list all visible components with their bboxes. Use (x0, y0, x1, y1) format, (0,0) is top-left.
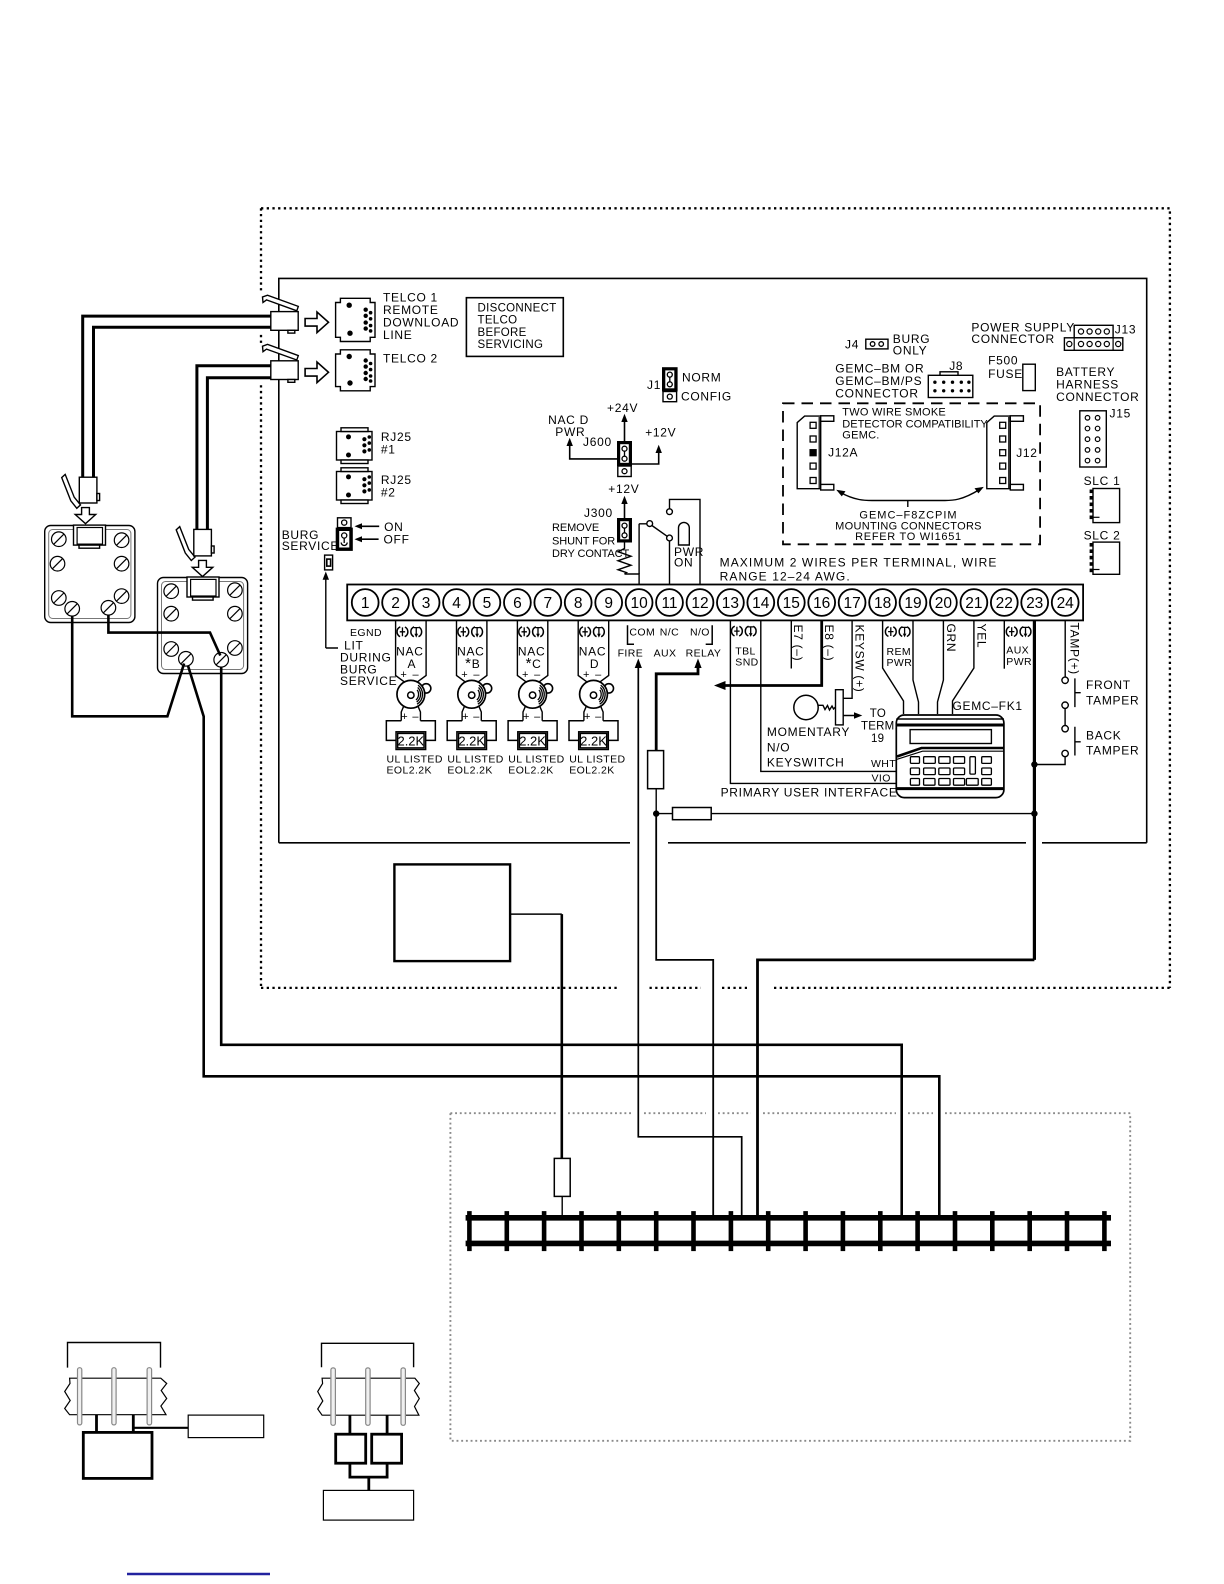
RJ25 #2 jack (337, 468, 373, 504)
svg-text:J300: J300 (584, 506, 613, 520)
svg-text:–: – (473, 711, 480, 723)
power switch contact to terminal 10 (639, 521, 672, 585)
svg-text:REFER TO WI1651: REFER TO WI1651 (855, 531, 962, 543)
wire terminal 24 TAMP (1064, 620, 1066, 677)
svg-text:SND: SND (735, 657, 758, 669)
TBL SND polarity terminals (732, 626, 757, 637)
svg-text:+: + (522, 669, 529, 681)
label POWER SUPPLY CONNECTOR (971, 321, 1075, 347)
svg-text:–: – (412, 669, 419, 681)
wire telco2 cable pair (197, 366, 271, 530)
svg-text:RELAY: RELAY (686, 648, 722, 660)
svg-text:–: – (534, 711, 541, 723)
svg-text:19: 19 (904, 595, 921, 612)
right cable symbol bracket (322, 1343, 414, 1367)
terminal 7 (534, 589, 561, 616)
terminal 4 (443, 589, 470, 616)
label FIRE AUX RELAY (618, 648, 722, 660)
wire J300 dry contact to terminal 10 (625, 574, 640, 585)
label UL LISTED EOL2.2K (A) (387, 754, 443, 777)
svg-text:REMOVE: REMOVE (552, 522, 599, 534)
NAC C bell (519, 680, 553, 708)
fuse F500 (1023, 364, 1036, 390)
terminal 12 (687, 589, 714, 616)
RELAY arrow wire from terminal 12 (656, 659, 701, 752)
svg-text:RANGE 12–24 AWG.: RANGE 12–24 AWG. (720, 570, 851, 584)
svg-text:PRIMARY USER INTERFACE: PRIMARY USER INTERFACE (721, 786, 898, 800)
resistor R3 (vertical) (554, 1158, 570, 1196)
svg-text:+: + (523, 711, 530, 723)
FIRE arrow wire from terminal 10 (635, 659, 742, 1219)
svg-text:N/O: N/O (767, 740, 790, 754)
down arrow to block 1 (75, 508, 96, 524)
RJ31X block 1 (45, 525, 135, 622)
svg-text:GRN: GRN (944, 624, 958, 653)
right structure connector stubs (350, 1415, 387, 1434)
RJ25 #1 jack (337, 428, 373, 464)
right cable conductors (331, 1368, 406, 1425)
connector SLC1 (1090, 489, 1120, 523)
arrow NAC D PWR from J600 (548, 413, 617, 459)
wire terminal 21 YEL to keypad (953, 620, 974, 714)
wire resistor R1 to junction (655, 789, 657, 814)
wire terminal 19 to keypad (913, 620, 919, 714)
svg-text:AUX: AUX (1006, 645, 1029, 657)
wire terminal 20 GRN to keypad (938, 620, 944, 714)
terminal 24 (1052, 589, 1079, 616)
svg-text:19: 19 (871, 733, 884, 745)
svg-text:+: + (462, 711, 469, 723)
svg-text:4: 4 (452, 595, 461, 612)
label BACK TAMPER (1086, 729, 1139, 758)
svg-text:J12A: J12A (828, 446, 858, 460)
svg-text:11: 11 (661, 595, 677, 612)
svg-text:VIO: VIO (872, 773, 891, 785)
wire terminal 23 thick drop (1033, 620, 1036, 960)
svg-text:+: + (400, 669, 407, 681)
wire terminal 16 E8 thick with left arrow (714, 620, 822, 690)
svg-text:7: 7 (543, 595, 552, 612)
momentary keyswitch key symbol (794, 690, 843, 725)
svg-text:CONNECTOR: CONNECTOR (835, 387, 918, 401)
left cable symbol band (65, 1378, 167, 1415)
svg-text:TAMP(+): TAMP(+) (1068, 623, 1082, 675)
terminal 20 (930, 589, 957, 616)
terminal 16 (808, 589, 835, 616)
arrow +24V from J600 (607, 401, 638, 441)
TELCO 2 jack J-T2 (336, 350, 375, 391)
wire resistor R3 to lower terminal block (561, 1196, 563, 1218)
svg-text:SLC 2: SLC 2 (1084, 529, 1121, 543)
down arrow to block 2 (192, 560, 213, 576)
label RJ25 #2 (381, 473, 412, 500)
svg-text:TERM.: TERM. (861, 721, 898, 733)
two wire smoke compatibility dashed box (783, 403, 1040, 544)
left cable conductors (78, 1368, 152, 1425)
svg-text:ON: ON (674, 556, 693, 570)
svg-text:EOL2.2K: EOL2.2K (569, 765, 614, 777)
terminal 11 (656, 589, 683, 616)
svg-text:J13: J13 (1115, 323, 1136, 337)
label F500 FUSE (988, 354, 1023, 381)
svg-text:GEMC.: GEMC. (842, 430, 879, 442)
NAC B bell neck (462, 706, 481, 721)
RJ plug P3 into RJ31X block 1 (62, 474, 100, 508)
svg-text:23: 23 (1026, 595, 1043, 612)
svg-text:3: 3 (422, 595, 431, 612)
svg-text:DISCONNECT: DISCONNECT (478, 303, 557, 315)
label UL LISTED EOL2.2K (C) (508, 754, 564, 777)
label BURG SERVICE (282, 528, 339, 553)
connector J12A (797, 416, 834, 490)
label NAC A (396, 645, 423, 682)
svg-text:YEL: YEL (975, 624, 989, 649)
AUX PWR polarity terminals (1006, 626, 1031, 637)
svg-text:E7 (–): E7 (–) (791, 625, 805, 662)
svg-text:E8 (–): E8 (–) (822, 625, 836, 662)
svg-text:PWR: PWR (887, 657, 913, 669)
svg-text:PWR: PWR (1006, 656, 1032, 668)
wire block2 to premises phones (lower horizontal) (188, 666, 939, 1218)
svg-text:DRY CONTACT: DRY CONTACT (552, 548, 630, 560)
arrow keyswitch TO TERM 19 (843, 708, 898, 745)
svg-text:#2: #2 (381, 486, 396, 500)
svg-text:+: + (461, 669, 468, 681)
svg-text:ONLY: ONLY (893, 343, 928, 357)
terminal 3 (413, 589, 440, 616)
svg-text:8: 8 (574, 595, 583, 612)
svg-text:J12: J12 (1016, 446, 1037, 460)
svg-text:+24V: +24V (607, 401, 638, 415)
svg-text:CONNECTOR: CONNECTOR (1056, 390, 1139, 404)
wire terminal 15 E7 (790, 620, 792, 668)
jumper J600 (617, 441, 632, 477)
NAC C polarity terminals (519, 626, 544, 637)
jumper J300 (617, 518, 632, 543)
burg service LED (325, 555, 333, 570)
svg-text:–: – (595, 711, 602, 723)
wire terminal 14 to WHT (761, 620, 897, 771)
control panel board outline (279, 278, 1147, 842)
svg-text:–: – (595, 669, 602, 681)
svg-text:2: 2 (391, 595, 400, 612)
wire block1 tip terminal to block2 (108, 615, 220, 655)
svg-text:NORM: NORM (682, 371, 721, 385)
arrow OFF (355, 533, 410, 547)
svg-text:24: 24 (1057, 595, 1075, 612)
svg-text:1: 1 (361, 595, 370, 612)
label LIT DURING BURG SERVICE (340, 639, 397, 689)
terminal 9 (595, 589, 622, 616)
arrow +12V from J300 (608, 482, 639, 518)
back tamper switch (1062, 726, 1081, 757)
NAC B EOL resistor 2.2K (447, 721, 496, 750)
svg-text:N/O: N/O (690, 627, 710, 639)
terminal 23 (1021, 589, 1048, 616)
terminal 17 (839, 589, 866, 616)
svg-text:MOMENTARY: MOMENTARY (767, 725, 850, 739)
svg-text:BEFORE: BEFORE (478, 327, 527, 339)
svg-text:PWR: PWR (555, 425, 585, 439)
svg-text:+: + (583, 669, 590, 681)
NAC D circuit wires from terminals 8,9 (578, 620, 609, 682)
RJ plug P1 into TELCO 1 (263, 295, 299, 333)
connector J8 (928, 372, 973, 398)
svg-text:2.2K: 2.2K (519, 734, 546, 749)
svg-text:22: 22 (996, 595, 1013, 612)
label NAC D (579, 645, 606, 682)
junction node C (1031, 761, 1037, 767)
NAC C EOL resistor 2.2K (508, 721, 557, 750)
jumper J1 (662, 367, 678, 402)
left structure connector stubs (97, 1415, 134, 1433)
label MOMENTARY N/O KEYSWITCH (767, 725, 850, 770)
svg-text:SERVICE: SERVICE (340, 674, 397, 688)
svg-text:EOL2.2K: EOL2.2K (447, 765, 492, 777)
junction node B (1031, 810, 1037, 816)
svg-text:15: 15 (783, 595, 800, 612)
label GEMC-BM OR GEMC-BM/PS CONNECTOR (835, 362, 924, 401)
svg-text:TELCO: TELCO (478, 315, 518, 327)
svg-text:–: – (412, 711, 419, 723)
wire block1 ring terminal to block2 (72, 616, 184, 716)
connector J15 (1080, 411, 1107, 467)
label J4 BURG ONLY (845, 332, 930, 357)
svg-text:+: + (401, 711, 408, 723)
terminal 13 (717, 589, 744, 616)
connector SLC2 (1090, 542, 1120, 574)
NAC A polarity terminals (397, 626, 422, 637)
notice box DISCONNECT TELCO BEFORE SERVICING (466, 298, 563, 357)
connector J4 (866, 339, 888, 349)
terminal 21 (961, 589, 988, 616)
svg-text:EOL2.2K: EOL2.2K (387, 765, 432, 777)
wire B step to lower terminal block (758, 960, 1035, 1218)
svg-text:10: 10 (630, 595, 648, 612)
REM PWR polarity terminals (885, 626, 910, 637)
hollow arrow plug1 to TELCO1 jack (305, 312, 328, 333)
svg-text:J8: J8 (949, 359, 963, 373)
svg-text:TAMPER: TAMPER (1086, 744, 1139, 758)
supervision resistor R1 (vertical) (648, 751, 664, 789)
right structure device box 1 (336, 1434, 366, 1463)
wire terminal 18 to keypad (883, 620, 904, 714)
label FRONT TAMPER (1086, 678, 1139, 708)
label J300 REMOVE SHUNT FOR DRY CONTACT (552, 506, 630, 560)
svg-text:F500: F500 (988, 354, 1018, 368)
svg-text:#1: #1 (381, 443, 396, 457)
hyperlink underline (127, 1573, 270, 1575)
svg-text:KEYSWITCH: KEYSWITCH (767, 756, 845, 770)
label NAC C (518, 645, 545, 682)
svg-text:EOL2.2K: EOL2.2K (508, 765, 553, 777)
svg-text:17: 17 (843, 595, 860, 612)
svg-text:BACK: BACK (1086, 729, 1121, 743)
svg-text:18: 18 (874, 595, 891, 612)
keypad GEMC-FK1 (896, 715, 1004, 798)
dry contact zigzag resistor (618, 543, 631, 575)
right cable symbol band (318, 1378, 420, 1415)
svg-text:TAMPER: TAMPER (1086, 694, 1139, 708)
label RJ25 #1 (381, 430, 412, 457)
svg-text:2.2K: 2.2K (458, 734, 485, 749)
junction node A (653, 810, 659, 816)
svg-text:SERVICING: SERVICING (478, 339, 544, 351)
svg-text:TWO WIRE SMOKE: TWO WIRE SMOKE (842, 407, 946, 419)
connector J12 (987, 416, 1024, 490)
NAC A circuit wires from terminals 2,3 (396, 620, 427, 682)
unlabeled module box (394, 864, 510, 961)
wire between tamper switches (1064, 708, 1066, 725)
label TBL SND (735, 646, 758, 669)
PWR ON indicator dome (674, 522, 704, 569)
svg-text:–: – (473, 669, 480, 681)
wire resistor R2 to keypad bus (711, 813, 1034, 815)
label REM PWR (887, 646, 913, 669)
svg-text:J15: J15 (1110, 407, 1131, 421)
NAC B circuit wires from terminals 4,5 (457, 620, 487, 682)
svg-text:12: 12 (691, 595, 708, 612)
svg-text:MAXIMUM 2 WIRES PER TERMINAL,: MAXIMUM 2 WIRES PER TERMINAL, WIRE (720, 556, 998, 570)
leader from LED to LIT note (323, 572, 338, 649)
svg-text:SLC 1: SLC 1 (1084, 474, 1121, 488)
outer dashed enclosure border (261, 208, 1170, 988)
label UL LISTED EOL2.2K (D) (569, 754, 625, 777)
left cable symbol bracket (68, 1343, 161, 1368)
wire back tamper to bus junction (1034, 757, 1065, 765)
terminal 15 (778, 589, 805, 616)
left structure device box (83, 1432, 152, 1478)
bracket COM N/C N/O (628, 625, 713, 644)
NAC A bell neck (401, 706, 420, 721)
svg-text:2.2K: 2.2K (580, 734, 607, 749)
label J1 NORM CONFIG (647, 371, 732, 404)
terminal 5 (474, 589, 501, 616)
NAC C circuit wires from terminals 6,7 (517, 620, 547, 682)
svg-text:SHUNT FOR: SHUNT FOR (552, 536, 615, 548)
wire A panel exit to lower terminal block (656, 814, 713, 1218)
NAC D bell (580, 680, 614, 708)
TELCO 1 jack J-T1 (336, 298, 375, 341)
svg-text:EGND: EGND (350, 627, 382, 639)
NAC C bell neck (523, 706, 542, 721)
svg-text:TO: TO (870, 708, 886, 720)
note MAXIMUM 2 WIRES PER TERMINAL (720, 556, 998, 584)
wire terminal 22 (1003, 620, 1005, 668)
NAC A bell (397, 680, 431, 708)
front tamper switch (1062, 677, 1081, 708)
terminal 22 (991, 589, 1018, 616)
label UL LISTED EOL2.2K (B) (447, 754, 503, 777)
BURG SERVICE jumper (336, 518, 353, 551)
terminal 18 (869, 589, 896, 616)
svg-text:20: 20 (935, 595, 953, 612)
svg-text:–: – (534, 669, 541, 681)
svg-text:9: 9 (604, 595, 613, 612)
svg-text:J1: J1 (647, 378, 661, 392)
terminal strip block (347, 585, 1083, 621)
svg-text:SERVICE: SERVICE (282, 539, 339, 553)
svg-text:+12V: +12V (645, 426, 676, 440)
svg-text:TELCO 2: TELCO 2 (383, 352, 438, 366)
NAC D polarity terminals (580, 626, 605, 637)
svg-text:6: 6 (513, 595, 522, 612)
lower terminal block rails (466, 1218, 1111, 1244)
svg-text:+: + (584, 711, 591, 723)
svg-text:GEMC–FK1: GEMC–FK1 (953, 699, 1023, 713)
RJ plug P2 into TELCO 2 (263, 344, 299, 382)
svg-text:21: 21 (965, 595, 982, 612)
NAC A EOL resistor 2.2K (386, 721, 435, 750)
svg-text:CONNECTOR: CONNECTOR (971, 332, 1054, 346)
wire terminal 17 to keyswitch (843, 620, 852, 698)
NAC B bell (458, 680, 492, 708)
mounting connector curved leader arrows (836, 487, 984, 507)
right structure device box 2 (372, 1434, 402, 1463)
svg-text:OFF: OFF (384, 533, 410, 547)
terminal 6 (504, 589, 531, 616)
terminal 1 (352, 589, 379, 616)
svg-text:5: 5 (483, 595, 492, 612)
wire block2 to telco network (upper horizontal) (221, 667, 902, 1218)
svg-text:16: 16 (813, 595, 830, 612)
svg-text:FIRE: FIRE (618, 648, 644, 660)
left side label box (188, 1415, 264, 1438)
label COM N/C N/O (629, 627, 709, 639)
terminal 2 (382, 589, 409, 616)
wire to left side label box (133, 1427, 188, 1429)
svg-text:AUX: AUX (654, 648, 677, 660)
lower terminal block ticks (469, 1211, 1104, 1251)
svg-text:CONFIG: CONFIG (681, 390, 732, 404)
terminal 14 (747, 589, 774, 616)
lower dashed enclosure box (450, 1113, 1130, 1441)
svg-text:KEYSW (+): KEYSW (+) (853, 625, 867, 693)
terminal 8 (565, 589, 592, 616)
terminal 10 (626, 589, 653, 616)
resistor R2 (horizontal) (656, 808, 711, 820)
arrow ON (355, 520, 404, 534)
wire module box to resistor R3 (510, 913, 562, 915)
right side label box (323, 1490, 413, 1520)
label TWO WIRE SMOKE DETECTOR COMPATIBILITY GEMC. (842, 407, 988, 442)
svg-text:J600: J600 (583, 435, 612, 449)
svg-text:COM: COM (629, 627, 655, 639)
svg-text:FRONT: FRONT (1086, 678, 1131, 692)
block 2 screw terminals (164, 583, 242, 667)
svg-text:+12V: +12V (608, 482, 639, 496)
wire terminal 13 to VIO (730, 620, 896, 783)
svg-text:LINE: LINE (383, 328, 412, 342)
svg-text:2.2K: 2.2K (397, 734, 424, 749)
power switch upper contact to terminal 12 (667, 499, 700, 584)
label NAC B (457, 645, 484, 682)
label AUX PWR (1006, 645, 1032, 669)
svg-text:FUSE: FUSE (988, 367, 1023, 381)
svg-text:J4: J4 (845, 337, 859, 351)
svg-text:N/C: N/C (660, 627, 679, 639)
arrow +12V right of J600 (632, 426, 676, 465)
label BATTERY HARNESS CONNECTOR (1056, 365, 1139, 404)
RJ31X block 2 (158, 577, 248, 674)
RJ plug P4 into RJ31X block 2 (176, 527, 214, 561)
terminal 19 (900, 589, 927, 616)
label TELCO 1 REMOTE DOWNLOAD LINE (383, 291, 459, 343)
NAC D EOL resistor 2.2K (569, 721, 618, 750)
hollow arrow plug2 to TELCO2 jack (305, 362, 328, 383)
svg-text:14: 14 (752, 595, 770, 612)
wire telco1 cable pair (83, 316, 271, 477)
